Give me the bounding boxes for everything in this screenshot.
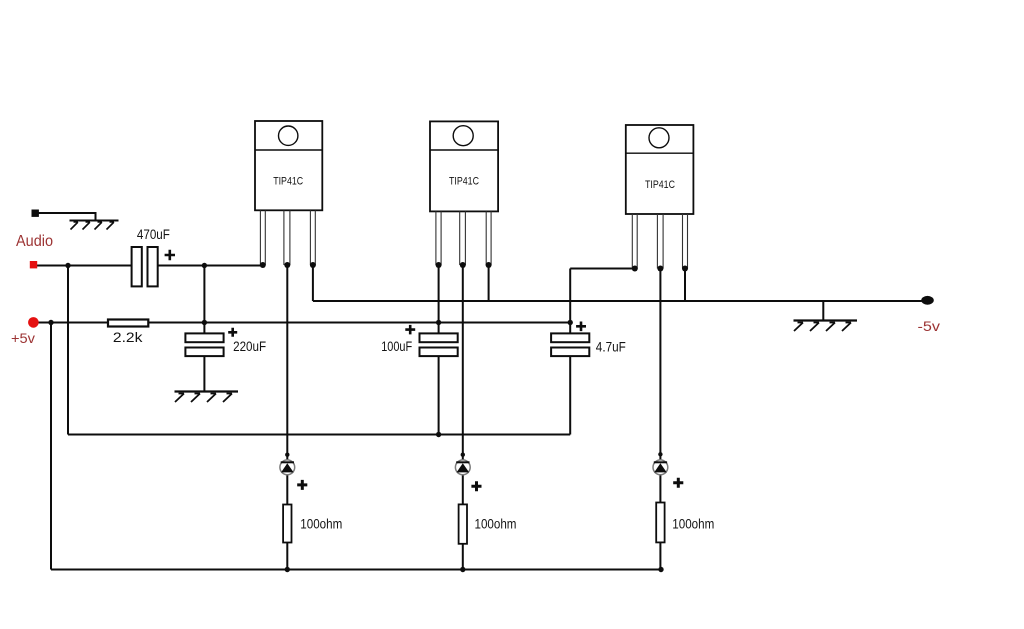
resistor R3 100ohm <box>459 504 467 543</box>
Q1 pin 3 <box>310 210 315 265</box>
svg-text:100ohm: 100ohm <box>475 517 517 532</box>
Q1 pin 1 <box>260 210 265 265</box>
LED D3 <box>653 452 668 475</box>
junction +5v at C4 <box>568 320 573 325</box>
ground G3 <box>794 321 858 332</box>
Q2 pin 2 <box>460 211 466 265</box>
junction bottom rail R4 <box>658 567 663 572</box>
junction Q2 pin2 <box>460 262 466 268</box>
ground G1 <box>70 221 119 230</box>
resistor R4 100ohm <box>656 503 664 543</box>
resistor R2 100ohm <box>283 505 291 543</box>
junction Q1 pin2 <box>284 262 290 268</box>
wire input terminal to ground <box>39 213 96 220</box>
junction Q2 pin3 <box>486 262 492 268</box>
+5v terminal red dot <box>28 317 39 328</box>
svg-text:100ohm: 100ohm <box>672 517 714 532</box>
C1 plus <box>165 250 175 260</box>
junction +5v at C3 <box>436 320 441 325</box>
Audio terminal red square <box>30 261 37 268</box>
wire audio to C1 <box>37 265 132 267</box>
wire C4 bottom <box>569 356 571 434</box>
wire Q2 pin3 to -5v bus <box>488 265 490 301</box>
junction Q2 pin1 <box>436 262 442 268</box>
svg-text:2.2k: 2.2k <box>113 330 143 345</box>
wire Q3 pin3 to -5v bus <box>684 269 686 302</box>
wire Q3 pin2 to LED D3 <box>659 269 661 461</box>
D2 plus <box>471 481 481 491</box>
LED D1 <box>280 453 295 475</box>
C4 plus <box>576 322 586 332</box>
C2 plus <box>228 328 237 337</box>
svg-text:Audio: Audio <box>16 233 53 250</box>
junction mid rail at C3 <box>436 432 441 437</box>
wire +5v bus <box>36 322 570 324</box>
junction bottom rail R3 <box>460 567 465 572</box>
Q3 pin 3 <box>683 214 688 269</box>
wire C1 output down to C2 <box>203 266 205 334</box>
Q2 pin 1 <box>436 211 441 265</box>
junction bottom rail R2 <box>285 567 290 572</box>
wire LED D3 to R4 <box>659 475 661 570</box>
wire C1 to Q1 pin1 <box>158 265 263 267</box>
wire bottom rail <box>51 569 661 571</box>
wire LED D1 to R2 <box>286 475 288 570</box>
wire -5v ground stub <box>822 301 824 321</box>
wire LED D2 to R3 <box>462 475 464 570</box>
wire C2 to ground <box>203 356 205 391</box>
transistor Q1 TIP41C <box>255 121 322 265</box>
C3 plus <box>405 325 415 335</box>
capacitor C1 470uF plates <box>132 247 158 286</box>
wire Q1 pin2 to LED D1 <box>286 265 288 460</box>
Q3 pin 1 <box>632 214 637 269</box>
svg-text:TIP41C: TIP41C <box>449 175 479 187</box>
wire Q2 pin1 to C3 <box>438 265 440 333</box>
svg-text:4.7uF: 4.7uF <box>596 340 626 355</box>
Q3 pin 2 <box>657 214 663 269</box>
junction Q3 pin2 <box>657 266 663 272</box>
svg-text:100uF: 100uF <box>381 339 412 354</box>
D1 plus <box>297 480 307 490</box>
junction node A <box>65 263 70 268</box>
LED D2 <box>455 453 470 475</box>
svg-text:220uF: 220uF <box>233 339 266 354</box>
capacitor C3 100uF <box>420 333 458 356</box>
ground G2 <box>175 392 239 403</box>
wire Q3 pin1 horizontal <box>570 268 635 270</box>
junction Q3 pin3 <box>682 266 688 272</box>
svg-text:470uF: 470uF <box>137 227 170 242</box>
junction +5v rail left <box>48 320 53 325</box>
Q1 pin 2 <box>284 210 290 265</box>
resistor R1 2.2k <box>108 320 148 327</box>
input terminal black square <box>32 210 39 217</box>
wire Q2 pin2 to LED D2 <box>462 265 464 460</box>
svg-text:100ohm: 100ohm <box>300 517 342 532</box>
capacitor C2 220uF <box>185 333 223 356</box>
junction Q1 pin3 <box>310 262 316 268</box>
wire mid rail <box>68 434 570 436</box>
D3 plus <box>673 478 683 488</box>
transistor Q3 TIP41C <box>626 125 694 269</box>
wire Q1 pin3 to -5v bus <box>313 265 922 301</box>
svg-text:TIP41C: TIP41C <box>273 175 303 187</box>
transistor Q2 TIP41C <box>430 121 498 265</box>
Q2 pin 3 <box>486 211 491 265</box>
capacitor C4 4.7uF <box>551 333 589 356</box>
svg-text:TIP41C: TIP41C <box>645 179 675 191</box>
junction Q1 pin1 <box>260 262 266 268</box>
junction +5v at C2 <box>202 320 207 325</box>
svg-text:-5v: -5v <box>918 318 941 334</box>
wire node A down left rail <box>67 266 69 435</box>
junction Q3 pin1 <box>632 266 638 272</box>
wire down to C4 <box>569 269 571 334</box>
wire C3 bottom <box>438 356 440 434</box>
junction C1 output <box>202 263 207 268</box>
wire +5v down to bottom rail <box>50 323 52 570</box>
-5v terminal black oval <box>921 296 934 305</box>
svg-text:+5v: +5v <box>11 330 35 346</box>
